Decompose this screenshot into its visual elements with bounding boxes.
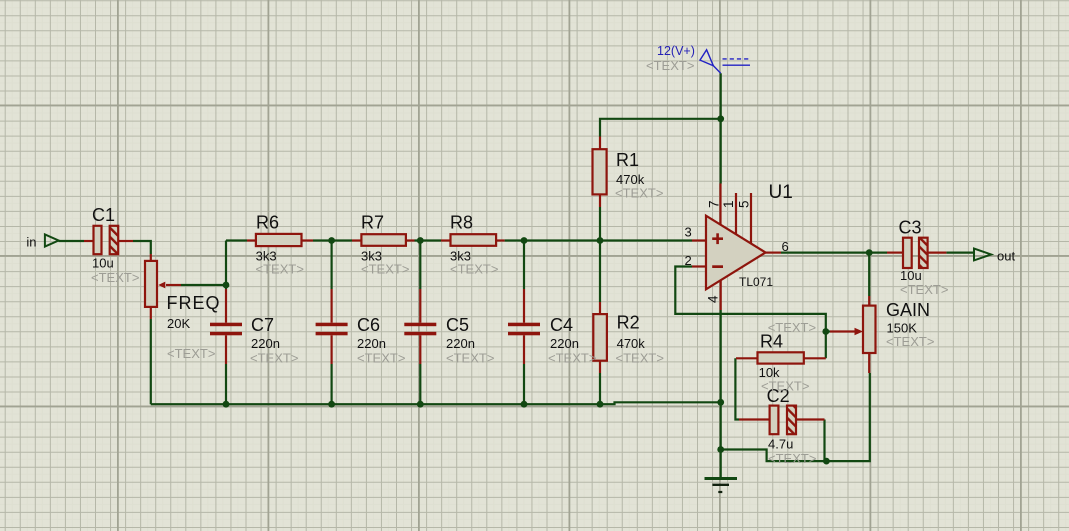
svg-text:6: 6 bbox=[782, 239, 789, 254]
svg-text:R2: R2 bbox=[617, 312, 640, 332]
svg-text:4.7u: 4.7u bbox=[768, 436, 793, 451]
svg-text:<TEXT>: <TEXT> bbox=[768, 451, 816, 466]
svg-text:20K: 20K bbox=[167, 316, 190, 331]
svg-text:in: in bbox=[26, 234, 36, 249]
svg-text:12(V+): 12(V+) bbox=[657, 44, 695, 58]
svg-text:<TEXT>: <TEXT> bbox=[361, 262, 409, 277]
svg-text:220n: 220n bbox=[446, 336, 475, 351]
svg-text:<TEXT>: <TEXT> bbox=[768, 320, 816, 335]
svg-text:220n: 220n bbox=[357, 336, 386, 351]
svg-text:R7: R7 bbox=[361, 213, 384, 233]
svg-text:<TEXT>: <TEXT> bbox=[886, 334, 934, 349]
svg-text:C7: C7 bbox=[251, 315, 274, 335]
svg-text:GAIN: GAIN bbox=[886, 300, 930, 320]
svg-text:<TEXT>: <TEXT> bbox=[900, 282, 948, 297]
svg-text:<TEXT>: <TEXT> bbox=[446, 351, 494, 366]
svg-text:TL071: TL071 bbox=[739, 275, 773, 289]
svg-text:4: 4 bbox=[706, 295, 721, 303]
svg-text:<TEXT>: <TEXT> bbox=[250, 351, 298, 366]
svg-text:2: 2 bbox=[685, 253, 692, 268]
svg-text:C5: C5 bbox=[446, 315, 469, 335]
svg-text:<TEXT>: <TEXT> bbox=[761, 379, 809, 394]
svg-text:R1: R1 bbox=[616, 150, 639, 170]
svg-text:<TEXT>: <TEXT> bbox=[646, 58, 694, 73]
svg-text:out: out bbox=[997, 249, 1015, 264]
svg-text:3: 3 bbox=[685, 225, 692, 240]
svg-text:<TEXT>: <TEXT> bbox=[357, 351, 405, 366]
svg-text:220n: 220n bbox=[251, 336, 280, 351]
svg-text:1: 1 bbox=[721, 201, 736, 209]
svg-text:U1: U1 bbox=[769, 182, 793, 203]
svg-text:<TEXT>: <TEXT> bbox=[616, 351, 664, 366]
svg-text:<TEXT>: <TEXT> bbox=[548, 351, 596, 366]
svg-text:C3: C3 bbox=[899, 218, 922, 238]
svg-text:7: 7 bbox=[707, 201, 722, 209]
svg-text:470k: 470k bbox=[617, 336, 646, 351]
svg-text:FREQ: FREQ bbox=[167, 293, 221, 313]
svg-text:<TEXT>: <TEXT> bbox=[91, 270, 139, 285]
svg-text:R6: R6 bbox=[256, 213, 279, 233]
svg-text:5: 5 bbox=[737, 201, 752, 209]
svg-text:C1: C1 bbox=[92, 205, 115, 225]
svg-text:C4: C4 bbox=[550, 315, 573, 335]
svg-text:C6: C6 bbox=[357, 315, 380, 335]
svg-text:<TEXT>: <TEXT> bbox=[615, 186, 663, 201]
svg-text:<TEXT>: <TEXT> bbox=[450, 262, 498, 277]
svg-text:10u: 10u bbox=[900, 268, 922, 283]
svg-text:<TEXT>: <TEXT> bbox=[167, 346, 215, 361]
svg-text:220n: 220n bbox=[550, 336, 579, 351]
svg-text:<TEXT>: <TEXT> bbox=[256, 262, 304, 277]
svg-text:10u: 10u bbox=[92, 256, 114, 271]
svg-text:R8: R8 bbox=[450, 213, 473, 233]
